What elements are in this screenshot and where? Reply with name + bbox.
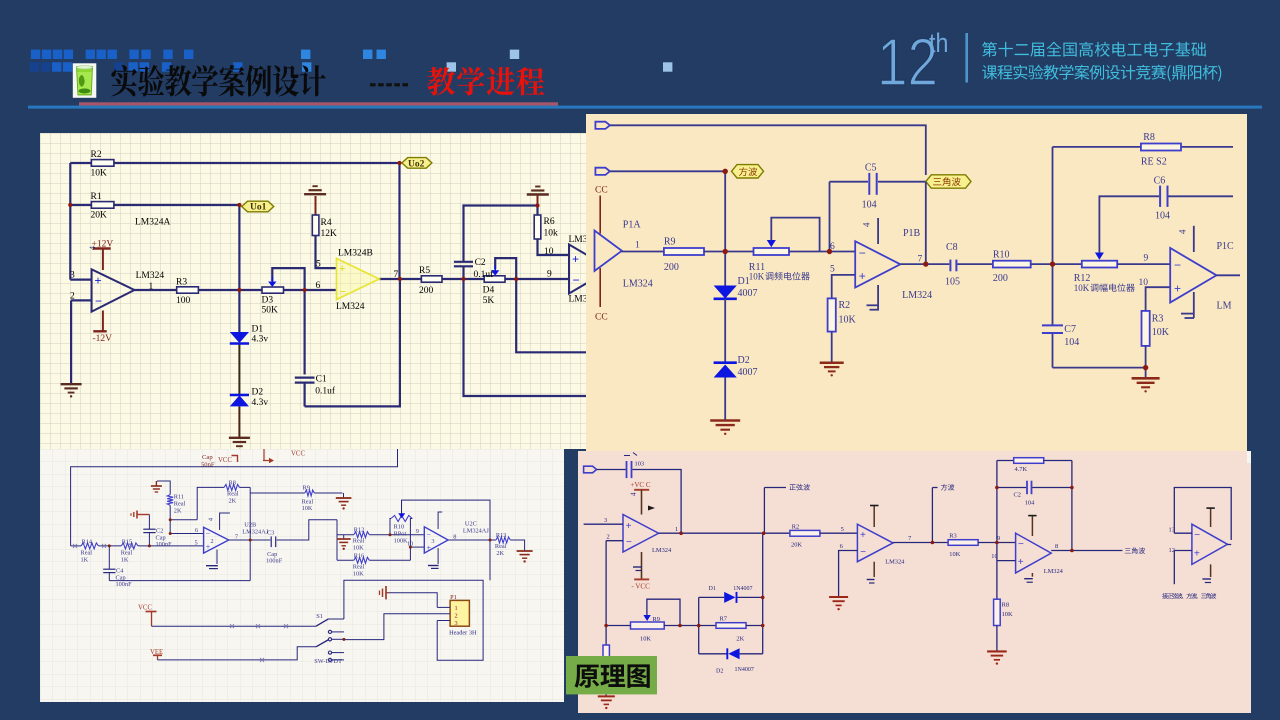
resistor R11b bbox=[157, 481, 170, 495]
svg-text:D2: D2 bbox=[716, 668, 723, 674]
svg-text:S1: S1 bbox=[316, 613, 323, 620]
svg-text:6: 6 bbox=[316, 281, 321, 291]
capacitor C2 0.1uf bbox=[454, 261, 473, 263]
svg-text:+: + bbox=[626, 521, 632, 532]
wire square node vertical bbox=[724, 171, 726, 251]
svg-text:LM324: LM324 bbox=[902, 290, 932, 301]
svg-text:CC: CC bbox=[595, 313, 608, 323]
resistor R2 bbox=[91, 160, 114, 167]
svg-text:R3: R3 bbox=[176, 277, 187, 287]
svg-text:100K: 100K bbox=[394, 537, 408, 544]
svg-text:50K: 50K bbox=[262, 306, 279, 316]
wire top to triangle node bbox=[610, 125, 926, 175]
svg-text:100nF: 100nF bbox=[156, 541, 173, 548]
svg-text:Uo2: Uo2 bbox=[408, 159, 425, 169]
P1C pin11 bbox=[1193, 292, 1195, 318]
ground R11b bbox=[151, 485, 162, 487]
op-amp A4 bbox=[1192, 524, 1228, 564]
P1C pin4 bbox=[1193, 226, 1195, 252]
svg-text:2: 2 bbox=[211, 538, 214, 545]
resistor R8 RES2 bbox=[1141, 144, 1181, 151]
svg-text:1: 1 bbox=[455, 605, 458, 612]
svg-text:D1: D1 bbox=[252, 325, 264, 335]
A4 pin11 bbox=[1210, 564, 1212, 577]
port stub top bbox=[595, 122, 610, 129]
wire C8 to R10 bbox=[957, 263, 993, 265]
net label 方波 bbox=[732, 165, 764, 178]
svg-text:P1A: P1A bbox=[623, 220, 642, 231]
svg-text:R9: R9 bbox=[664, 237, 676, 248]
wire Uo2 vertical bbox=[398, 163, 400, 279]
svg-text:C2: C2 bbox=[1014, 491, 1021, 498]
svg-text:5: 5 bbox=[830, 265, 835, 275]
wire arm to loop bbox=[329, 618, 344, 620]
svg-text:5: 5 bbox=[195, 539, 198, 546]
wire gnd to pin1 bbox=[389, 593, 437, 608]
ground below D2 bbox=[710, 419, 740, 422]
wire A1 out bbox=[659, 532, 790, 534]
opamp P1A partial bbox=[595, 231, 622, 272]
svg-text:3: 3 bbox=[70, 271, 75, 281]
svg-text:9: 9 bbox=[547, 270, 552, 280]
wire A4 out bbox=[1228, 544, 1232, 546]
svg-text:LM324: LM324 bbox=[885, 559, 905, 566]
svg-text:7: 7 bbox=[235, 533, 238, 540]
port stub p4 bbox=[584, 466, 597, 473]
svg-text:Real: Real bbox=[353, 538, 365, 545]
wire R13 to gnd bbox=[510, 540, 524, 551]
capacitor C2p4 104 bbox=[997, 487, 1026, 489]
op-amp LM324B U1B (yellow) bbox=[337, 259, 380, 300]
svg-text:LM324: LM324 bbox=[652, 547, 672, 554]
wire R3 bottom row bbox=[1145, 346, 1147, 368]
wire main row bbox=[71, 545, 81, 547]
resistor R9 200 bbox=[664, 248, 704, 255]
svg-text:R2: R2 bbox=[839, 300, 851, 311]
svg-text:20K: 20K bbox=[791, 541, 802, 548]
wire R8 node vertical bbox=[1052, 147, 1054, 325]
svg-text:−: − bbox=[95, 294, 102, 308]
svg-text:C2: C2 bbox=[156, 527, 163, 534]
D2 row bbox=[699, 653, 728, 655]
svg-text:−: − bbox=[1018, 539, 1024, 550]
potentiometer R11 bbox=[754, 248, 790, 255]
potentiometer D4 5K bbox=[484, 276, 505, 282]
svg-text:2: 2 bbox=[607, 533, 610, 540]
svg-text:4: 4 bbox=[209, 518, 215, 521]
op-amp LM324 U1A bbox=[92, 269, 135, 311]
junctions p2 bbox=[723, 169, 728, 174]
svg-text:10K: 10K bbox=[640, 635, 651, 642]
svg-text:Header 3H: Header 3H bbox=[449, 630, 477, 637]
ground R12b bbox=[343, 535, 345, 539]
junctions bbox=[68, 203, 72, 207]
svg-text:Real: Real bbox=[495, 543, 507, 550]
wire C6 right bbox=[1169, 195, 1234, 197]
net 三角波p4 bbox=[1125, 547, 1145, 553]
resistor R14 bbox=[81, 543, 99, 549]
svg-text:LM3: LM3 bbox=[569, 295, 587, 305]
svg-text:VCC: VCC bbox=[138, 605, 152, 612]
title underline maroon bbox=[79, 102, 558, 105]
wire R4 top bbox=[315, 196, 317, 215]
wire left vertical bbox=[69, 163, 71, 205]
svg-text:0.1uf: 0.1uf bbox=[474, 269, 495, 280]
svg-text:2K: 2K bbox=[174, 508, 182, 515]
wire C2 top link bbox=[462, 267, 464, 280]
net label Uo2 bbox=[402, 158, 432, 169]
svg-text:LM324: LM324 bbox=[1044, 568, 1064, 575]
wire to square node bbox=[610, 170, 725, 172]
svg-text:−: − bbox=[340, 286, 346, 298]
svg-text:9: 9 bbox=[1144, 254, 1149, 264]
selection marks bbox=[73, 544, 77, 548]
svg-text:P1C: P1C bbox=[1217, 241, 1235, 252]
header rule blue bbox=[28, 106, 1262, 109]
U2B pin4 bbox=[220, 513, 230, 530]
wire C5 feedback bbox=[829, 182, 831, 252]
capacitor C1p4 103 bbox=[597, 469, 626, 471]
svg-text:4: 4 bbox=[862, 222, 872, 227]
wire zener chain bbox=[238, 290, 240, 332]
capacitor C8 105 bbox=[949, 260, 951, 272]
svg-text:3: 3 bbox=[455, 620, 458, 627]
wire R2p4 to A2 bbox=[820, 532, 858, 534]
zener D1 4.3v bbox=[230, 332, 249, 343]
wire C3 to R12 bbox=[277, 520, 337, 540]
svg-text:R16: R16 bbox=[354, 552, 365, 559]
resistor R3 10K vertical bbox=[1142, 311, 1150, 346]
junctions p3 bbox=[108, 544, 111, 547]
power -12V bbox=[102, 311, 104, 332]
svg-text:+VC C: +VC C bbox=[630, 481, 650, 489]
op-amp A1 bbox=[623, 515, 659, 553]
port stub 2 bbox=[595, 168, 610, 175]
svg-text:4.7K: 4.7K bbox=[1015, 466, 1028, 473]
wire pin3 stub bbox=[437, 620, 450, 622]
svg-text:D1: D1 bbox=[709, 586, 716, 592]
wire P1C out bbox=[1217, 274, 1241, 276]
svg-text:Real: Real bbox=[174, 501, 186, 508]
svg-text:C5: C5 bbox=[865, 163, 877, 174]
resistor R12b bbox=[337, 534, 354, 536]
svg-text:10: 10 bbox=[1139, 278, 1149, 288]
svg-text:4007: 4007 bbox=[738, 288, 758, 299]
capacitor C2b bbox=[148, 533, 150, 546]
svg-text:6: 6 bbox=[195, 527, 198, 534]
op-amp U2C bbox=[424, 527, 448, 553]
svg-text:LM324: LM324 bbox=[623, 279, 653, 290]
svg-text:10K: 10K bbox=[1074, 283, 1090, 293]
svg-text:D1: D1 bbox=[738, 276, 750, 287]
svg-text:7: 7 bbox=[918, 255, 923, 265]
wire D4 wiper bracket bbox=[495, 258, 516, 279]
op-amp P1B bbox=[855, 241, 900, 287]
wire R10b left down bbox=[390, 519, 391, 535]
svg-text:LM324B: LM324B bbox=[338, 249, 373, 259]
power -VCC bbox=[634, 578, 649, 580]
P1A power CC bottom bbox=[599, 268, 601, 307]
wire R1 row bbox=[70, 204, 91, 206]
svg-text:10K: 10K bbox=[1152, 327, 1170, 338]
resistor R3 bbox=[177, 287, 199, 293]
wire R10 to R12 bbox=[1031, 263, 1082, 265]
P1B pin4 bbox=[877, 218, 879, 244]
svg-text:1K: 1K bbox=[121, 557, 129, 564]
resistor R9b bbox=[250, 492, 305, 494]
feedback verticals bbox=[996, 461, 998, 543]
resistor R8p4 bbox=[994, 599, 1001, 625]
A3 pin4 bbox=[1031, 516, 1033, 536]
U2B pin11 bbox=[216, 550, 218, 565]
resistor R6 bbox=[534, 215, 541, 239]
svg-text:10K: 10K bbox=[91, 169, 108, 179]
svg-text:2K: 2K bbox=[736, 635, 744, 642]
capacitor C5 104 bbox=[868, 173, 870, 195]
A3 pin11 bbox=[1031, 573, 1033, 577]
wire pin2 path bbox=[344, 614, 450, 640]
wire R10b right bbox=[410, 519, 412, 561]
svg-text:200: 200 bbox=[993, 273, 1008, 284]
wire pin2 bbox=[606, 540, 623, 542]
svg-text:0.1uf: 0.1uf bbox=[315, 386, 336, 397]
svg-text:100nF: 100nF bbox=[266, 558, 283, 565]
svg-text:C6: C6 bbox=[1154, 176, 1166, 187]
resistor R5 bbox=[421, 276, 442, 282]
diode D1 4007 bbox=[724, 252, 726, 286]
green label box bbox=[566, 656, 657, 694]
svg-text:D4: D4 bbox=[483, 286, 495, 296]
svg-text:R10: R10 bbox=[993, 250, 1010, 261]
resistor R2 10K vertical bbox=[828, 298, 836, 331]
svg-text:D2: D2 bbox=[252, 388, 264, 398]
wire pin7 row bbox=[379, 278, 421, 280]
svg-text:1N4007: 1N4007 bbox=[735, 667, 754, 673]
gnd arrow left bbox=[137, 514, 149, 516]
svg-text:+: + bbox=[1194, 549, 1200, 560]
separator bar bbox=[965, 33, 968, 83]
svg-text:C3: C3 bbox=[267, 530, 274, 537]
svg-text:VCC: VCC bbox=[291, 451, 305, 458]
wire lower branch C2 node bbox=[464, 279, 587, 396]
wire R8p4 gnd bbox=[996, 626, 998, 651]
svg-text:10K: 10K bbox=[353, 545, 364, 552]
svg-text:8: 8 bbox=[1055, 543, 1058, 550]
wire R12 wiper from C6 bbox=[1099, 196, 1159, 253]
zener D2 4.3v bbox=[230, 395, 249, 406]
svg-text:C8: C8 bbox=[946, 242, 958, 253]
op-amp U1C partial bbox=[569, 245, 611, 294]
svg-text:4.3v: 4.3v bbox=[252, 398, 269, 408]
contest name line1 bbox=[982, 42, 1206, 57]
svg-text:+: + bbox=[859, 269, 866, 283]
svg-text:LM324: LM324 bbox=[336, 302, 365, 312]
gnd arrow mid bbox=[385, 586, 387, 599]
svg-text:4: 4 bbox=[1178, 229, 1188, 234]
resistor R1 bbox=[91, 202, 114, 209]
label 原理图 bbox=[575, 665, 600, 688]
label 接正弦波 bbox=[1162, 593, 1216, 599]
capacitor C6 104 bbox=[1159, 186, 1161, 207]
wire pin10 bbox=[410, 546, 424, 548]
dashes bbox=[370, 83, 376, 86]
ground pin2 bbox=[61, 383, 82, 385]
svg-text:3: 3 bbox=[604, 517, 607, 524]
wire VEE to switch bbox=[158, 647, 317, 660]
wire R3p4 to A3 bbox=[978, 542, 1016, 544]
wire R6 leads bbox=[536, 206, 538, 216]
svg-text:+: + bbox=[860, 530, 866, 541]
U2C pin11 bbox=[437, 548, 439, 564]
A4 pin4 bbox=[1210, 508, 1212, 527]
op-amp P1C bbox=[1170, 248, 1216, 303]
svg-text:th: th bbox=[929, 28, 948, 58]
potentiometer R12 bbox=[1082, 261, 1117, 268]
ground below D2 bbox=[229, 437, 250, 439]
resistor R4 bbox=[312, 215, 319, 236]
svg-text:R8: R8 bbox=[229, 479, 236, 486]
svg-text:5: 5 bbox=[841, 526, 844, 533]
svg-text:2K: 2K bbox=[229, 497, 237, 504]
resistor R8b bbox=[224, 484, 240, 490]
resistor R2p4 20K bbox=[790, 530, 820, 536]
wire pin9 bbox=[1117, 263, 1170, 265]
svg-text:+: + bbox=[95, 274, 102, 288]
wire pin13 bbox=[1174, 532, 1192, 534]
A2 pin11 bbox=[873, 562, 875, 577]
glass icon bbox=[73, 63, 97, 98]
wire A3 out bbox=[1051, 550, 1122, 552]
ground R9b bbox=[343, 493, 345, 498]
svg-text:10k: 10k bbox=[544, 229, 559, 239]
svg-text:R3: R3 bbox=[949, 532, 956, 539]
svg-text:R2: R2 bbox=[792, 523, 799, 530]
svg-text:7: 7 bbox=[394, 270, 399, 280]
wire output node vertical bbox=[925, 182, 927, 264]
svg-text:10K: 10K bbox=[749, 272, 765, 282]
diode D2 4007 bbox=[724, 299, 726, 363]
capacitor C3 bbox=[270, 536, 272, 547]
ground above R6 bbox=[527, 193, 549, 195]
svg-text:R9: R9 bbox=[303, 485, 310, 492]
wire D3 wiper bracket bbox=[272, 268, 304, 290]
svg-text:5K: 5K bbox=[483, 296, 495, 306]
svg-text:3: 3 bbox=[431, 538, 434, 545]
wire fb down bbox=[489, 540, 491, 580]
svg-text:1: 1 bbox=[149, 282, 154, 292]
wire pin2 to ground bbox=[71, 299, 92, 301]
svg-text:R7: R7 bbox=[720, 616, 728, 623]
wire split vertical bbox=[336, 520, 338, 561]
wire pin6 row bbox=[170, 533, 203, 535]
wire R9p4 bracket bbox=[647, 599, 680, 625]
resistor R10 200 bbox=[993, 261, 1031, 268]
resistor R3p4 10K bbox=[948, 540, 978, 546]
wire U2B out bbox=[229, 539, 271, 541]
wire R2 to ground bbox=[831, 332, 833, 362]
svg-text:- VCC: - VCC bbox=[631, 583, 650, 591]
net 正弦波 bbox=[763, 488, 765, 534]
svg-text:2: 2 bbox=[455, 613, 458, 620]
svg-text:R11: R11 bbox=[174, 494, 184, 501]
svg-text:−: − bbox=[1194, 530, 1200, 541]
wire pin10 bbox=[1146, 287, 1171, 311]
svg-text:6: 6 bbox=[840, 543, 843, 550]
svg-text:R2: R2 bbox=[91, 150, 102, 160]
wire pin10 bbox=[997, 560, 1016, 562]
wire R9 to R11 bbox=[704, 251, 754, 253]
wire output pin1 row bbox=[134, 289, 177, 291]
svg-text:10K: 10K bbox=[353, 571, 364, 578]
svg-text:R15: R15 bbox=[122, 538, 133, 545]
svg-text:−: − bbox=[626, 537, 632, 548]
svg-text:10K: 10K bbox=[949, 551, 960, 558]
slide title 实验教学案例设计 bbox=[111, 65, 137, 96]
svg-text:CC: CC bbox=[595, 186, 608, 196]
svg-text:R3: R3 bbox=[1152, 314, 1164, 325]
op-amp A2 bbox=[857, 524, 893, 562]
wire top rail bbox=[71, 449, 398, 546]
svg-text:105: 105 bbox=[945, 277, 960, 288]
svg-text:104: 104 bbox=[862, 200, 877, 211]
svg-text:8: 8 bbox=[453, 533, 456, 540]
svg-text:200: 200 bbox=[664, 262, 679, 273]
resistor R15 bbox=[121, 543, 138, 549]
wire pin5 bbox=[832, 275, 856, 299]
svg-text:13: 13 bbox=[1169, 526, 1175, 533]
parallel verticals bbox=[698, 597, 700, 653]
svg-text:R6: R6 bbox=[544, 217, 555, 227]
wire R9p4 row bbox=[606, 625, 630, 627]
wire pin5 from R4 bbox=[316, 236, 337, 269]
wire R8 loop bbox=[170, 519, 197, 521]
svg-text:R1: R1 bbox=[91, 192, 102, 202]
svg-text:R13: R13 bbox=[496, 532, 507, 539]
svg-text:Uo1: Uo1 bbox=[250, 203, 267, 213]
wire R8 row bbox=[1053, 146, 1141, 148]
wire loop box bbox=[344, 580, 483, 660]
U2C pin4 bbox=[438, 512, 442, 529]
resistor R16 bbox=[337, 559, 354, 561]
wire A4 top bracket bbox=[1174, 488, 1231, 541]
svg-text:C7: C7 bbox=[1064, 324, 1076, 335]
svg-text:2: 2 bbox=[70, 292, 75, 302]
svg-text:104: 104 bbox=[1064, 337, 1079, 348]
svg-text:Real: Real bbox=[227, 490, 239, 497]
svg-text:C1: C1 bbox=[316, 375, 327, 385]
svg-text:R10: R10 bbox=[394, 523, 405, 530]
A2 pin4 bbox=[873, 506, 875, 528]
svg-text:10K: 10K bbox=[302, 505, 313, 512]
capacitor C7 104 bbox=[1042, 324, 1063, 326]
svg-text:P1: P1 bbox=[450, 594, 457, 601]
svg-text:50nF: 50nF bbox=[201, 461, 215, 468]
wire C1p4 to node bbox=[633, 470, 682, 534]
wire lower branch D4 node bbox=[516, 279, 586, 352]
svg-text:U2B: U2B bbox=[244, 521, 256, 528]
net 方波p4 bbox=[931, 488, 933, 543]
svg-text:−: − bbox=[1174, 258, 1181, 272]
wire Uo1 vertical bbox=[238, 205, 240, 290]
header P1 bbox=[450, 600, 469, 626]
ground R13 bbox=[517, 550, 533, 552]
svg-text:-12V: -12V bbox=[93, 334, 113, 344]
svg-text:−: − bbox=[573, 273, 580, 287]
wire D2 to ground bbox=[724, 378, 726, 420]
svg-text:4: 4 bbox=[630, 492, 638, 496]
svg-text:RPot: RPot bbox=[394, 530, 407, 537]
resistor 4.7K bbox=[997, 460, 1014, 462]
